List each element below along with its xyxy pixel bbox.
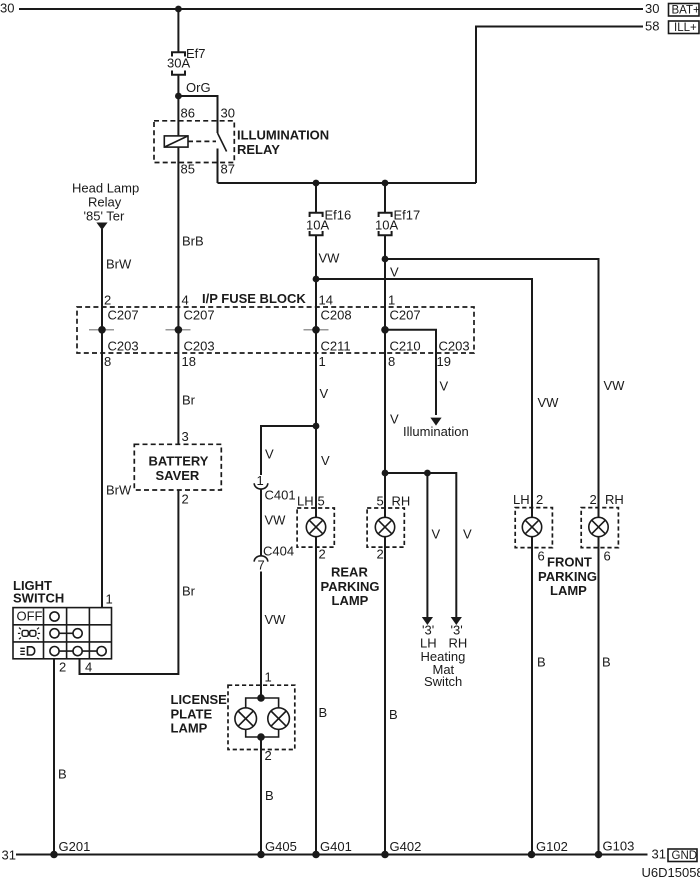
connector C207 wire1 (108, 308, 139, 323)
svg-text:V: V (321, 453, 330, 468)
pin 18 label below block wire2 (182, 354, 196, 369)
label LH RH heating (420, 636, 467, 651)
svg-text:FRONT: FRONT (547, 555, 592, 570)
svg-text:V: V (390, 412, 399, 427)
wire heating mat branch (385, 473, 456, 618)
svg-text:Illumination: Illumination (403, 424, 469, 439)
pin 19 label below block wire5 (437, 354, 451, 369)
connector C207 wire2 (184, 308, 215, 323)
svg-text:Head Lamp: Head Lamp (72, 181, 139, 196)
svg-text:C208: C208 (321, 308, 352, 323)
wire C401 to C404 (260, 489, 262, 556)
label Br light switch wire (182, 584, 196, 599)
svg-text:1: 1 (265, 670, 272, 685)
label B front LH ground (537, 655, 546, 670)
label Ef7 (186, 46, 206, 61)
wire battery saver to light switch pin 4 (80, 490, 179, 674)
pin 1 label below block wire3 (319, 354, 326, 369)
label '3' LH (422, 623, 434, 638)
wire to fuse Ef16 (315, 183, 317, 213)
svg-text:REAR: REAR (331, 565, 368, 580)
wire light switch pin 2 to ground (53, 659, 55, 855)
wire Ef16 to fuse block pin 14 (315, 235, 317, 855)
svg-text:4: 4 (85, 660, 92, 675)
svg-text:2: 2 (104, 293, 111, 308)
label Illumination (403, 424, 469, 439)
front parking lamp LH pin 2 labels (513, 492, 543, 507)
svg-text:V: V (440, 379, 449, 394)
front parking lamp LH bulb (522, 517, 541, 536)
label VW license lower (265, 612, 287, 627)
battery saver dashed box (134, 444, 221, 490)
svg-text:LH: LH (513, 492, 530, 507)
label B license ground wire (265, 788, 274, 803)
label Head Lamp Relay 85 Ter (72, 181, 139, 224)
svg-text:10A: 10A (306, 218, 329, 233)
svg-text:5: 5 (318, 494, 325, 509)
svg-text:B: B (319, 705, 328, 720)
svg-text:B: B (265, 788, 274, 803)
svg-text:4: 4 (182, 293, 189, 308)
connector C210 wire4 (390, 339, 421, 354)
junction 87 bus / Ef17 (382, 180, 389, 187)
rear parking lamp LH dashed box (297, 508, 334, 547)
label REAR PARKING LAMP (321, 565, 380, 609)
illumination relay dashed box (154, 121, 234, 163)
svg-text:LH: LH (297, 494, 314, 509)
svg-text:6: 6 (604, 549, 611, 564)
front parking lamp LH dashed box (515, 508, 552, 548)
wire relay pin 85 down (177, 147, 179, 444)
svg-text:8: 8 (388, 354, 395, 369)
label FRONT PARKING LAMP (538, 555, 597, 599)
junction license branch (313, 423, 320, 430)
svg-text:C207: C207 (108, 308, 139, 323)
label BATTERY SAVER (149, 454, 209, 483)
light switch pin 2 label (59, 660, 66, 675)
label VW license upper (265, 513, 287, 528)
svg-text:2: 2 (182, 492, 189, 507)
svg-text:G401: G401 (320, 839, 352, 854)
svg-text:LICENSE: LICENSE (171, 692, 228, 707)
label ILLUMINATION RELAY (237, 128, 329, 157)
svg-text:C203: C203 (439, 339, 470, 354)
rear parking lamp RH dashed box (367, 508, 404, 547)
relay coil (164, 136, 188, 147)
svg-text:30A: 30A (167, 56, 190, 71)
fuse Ef7 (172, 52, 185, 74)
svg-text:ILLUMINATION: ILLUMINATION (237, 128, 329, 143)
label V heating LH (432, 527, 441, 542)
svg-text:OFF: OFF (17, 609, 43, 624)
pin 8 label below block wire4 (388, 354, 395, 369)
label B switch ground wire (58, 767, 67, 782)
ground bus 31 (16, 854, 648, 856)
label V heating RH (463, 527, 472, 542)
svg-text:RH: RH (392, 494, 411, 509)
svg-text:2: 2 (590, 492, 597, 507)
light switch pin 4 label (85, 660, 92, 675)
terminal ILL+ (669, 21, 700, 34)
connector C208 wire3 (321, 308, 352, 323)
rear parking lamp LH pin 5 labels (297, 494, 325, 509)
svg-text:G103: G103 (603, 839, 635, 854)
label LIGHT SWITCH (13, 578, 64, 606)
label 10A Ef17 (375, 218, 398, 233)
svg-text:V: V (390, 265, 399, 280)
svg-text:G405: G405 (265, 839, 297, 854)
label '3' RH (451, 623, 463, 638)
label 30A (167, 56, 190, 71)
front parking lamp RH pin 2 labels (590, 492, 624, 507)
connector C401 (254, 483, 295, 502)
svg-text:PARKING: PARKING (321, 579, 380, 594)
svg-text:GND: GND (672, 850, 698, 862)
junction Ef17 wire front RH branch (382, 256, 389, 263)
svg-text:I/P FUSE BLOCK: I/P FUSE BLOCK (202, 291, 306, 306)
label VW Ef16 wire (319, 251, 341, 266)
label Ef16 (325, 208, 352, 223)
svg-text:VW: VW (265, 612, 287, 627)
svg-text:BrW: BrW (106, 483, 132, 498)
svg-text:6: 6 (538, 549, 545, 564)
wire branch to front parking RH (385, 259, 599, 855)
node OrG junction (175, 93, 182, 100)
wire 58 from ILL+ (476, 27, 643, 184)
svg-text:1: 1 (106, 592, 113, 607)
svg-text:86: 86 (181, 106, 195, 121)
fuse Ef16 (310, 213, 323, 235)
license lamp internal wiring bottom (246, 729, 279, 737)
pin 87 label (221, 162, 235, 177)
light switch table grid (13, 608, 112, 659)
label BrW lower (106, 483, 132, 498)
svg-text:85: 85 (181, 162, 195, 177)
junction wire4 inside block (381, 326, 389, 334)
svg-text:V: V (432, 527, 441, 542)
license lamp pin 2 label (265, 748, 272, 763)
label VW front LH (538, 395, 560, 410)
license plate lamp dashed box (228, 685, 295, 749)
junction heating mat LH (424, 470, 431, 477)
switch contact row1 col2 (50, 612, 59, 621)
svg-text:8: 8 (104, 354, 111, 369)
license lamp top junction (257, 694, 265, 702)
wire branch C203 19 illumination (385, 330, 436, 415)
label OrG (186, 80, 211, 95)
svg-text:Switch: Switch (424, 674, 462, 689)
rear parking lamp RH pin 2 label (377, 547, 384, 562)
svg-text:VW: VW (604, 378, 626, 393)
node 58 label (645, 19, 659, 34)
label LICENSE PLATE LAMP (171, 692, 228, 736)
label V rear LH wire upper (320, 386, 329, 401)
rear parking lamp RH pin 5 labels (377, 494, 411, 509)
svg-text:V: V (463, 527, 472, 542)
svg-text:G201: G201 (59, 839, 91, 854)
bus bar wire2 (166, 326, 191, 334)
bus bar wire3 (304, 326, 329, 334)
junction VW wire front LH branch (313, 276, 320, 283)
headlamp icon row3 (20, 647, 34, 655)
front parking lamp LH pin 6 label (538, 549, 545, 564)
svg-text:3: 3 (182, 429, 189, 444)
svg-text:1: 1 (319, 354, 326, 369)
relay coil to contact dashed link (188, 140, 216, 142)
junction heating mat branch (382, 470, 389, 477)
svg-text:BrW: BrW (106, 257, 132, 272)
wire C404 to license plate lamp (260, 572, 262, 699)
label B front RH ground (602, 655, 611, 670)
svg-text:C203: C203 (108, 339, 139, 354)
node 30 label right (645, 1, 659, 16)
node 31 label right (652, 847, 666, 862)
light switch pin 1 label (106, 592, 113, 607)
svg-text:PLATE: PLATE (171, 706, 213, 721)
label BrW upper (106, 257, 132, 272)
license lamp pin 1 label (265, 670, 272, 685)
arrowhead heating LH (422, 617, 433, 625)
license bulb left (235, 708, 257, 730)
wire branch to license plate circuit (261, 426, 316, 475)
svg-text:C210: C210 (390, 339, 421, 354)
pin 14 label above block wire3 (319, 293, 333, 308)
license bulb right (268, 708, 290, 730)
svg-text:VW: VW (538, 395, 560, 410)
label V illumination wire (440, 379, 449, 394)
wire heating mat LH arrow (426, 473, 428, 618)
connector C203 wire2 (184, 339, 215, 354)
pin 4 label above block wire2 (182, 293, 189, 308)
arrowhead heating RH (451, 617, 462, 625)
label Ef17 (394, 208, 421, 223)
relay switch blade (218, 121, 227, 152)
arrow from head lamp relay (96, 223, 107, 231)
license lamp bottom junction (257, 733, 265, 741)
label V rear LH wire lower (321, 453, 330, 468)
bus bar wire1 (89, 326, 114, 334)
svg-text:30: 30 (645, 1, 659, 16)
label 10A Ef16 (306, 218, 329, 233)
pin 3 label battery saver (182, 429, 189, 444)
ground G103 (595, 839, 635, 859)
connector C401 pin 1 label (257, 473, 264, 488)
svg-text:BAT+: BAT+ (672, 5, 700, 17)
svg-text:Br: Br (182, 393, 196, 408)
pin 86 label (181, 106, 195, 121)
svg-text:V: V (265, 447, 274, 462)
rear parking lamp RH bulb (375, 517, 394, 536)
wire relay 87 output bus (218, 182, 477, 184)
node 31 label left (2, 848, 16, 863)
ground G401 (312, 839, 352, 858)
label V license wire (265, 447, 274, 462)
ground G102 (528, 839, 568, 858)
I/P fuse block dashed box (77, 307, 474, 353)
svg-text:V: V (320, 386, 329, 401)
svg-text:C404: C404 (263, 544, 294, 559)
label I/P FUSE BLOCK (202, 291, 306, 306)
arrowhead illumination (430, 418, 441, 426)
pin 8 label below block wire1 (104, 354, 111, 369)
wire branch to front parking LH (316, 279, 532, 855)
svg-text:31: 31 (2, 848, 16, 863)
wire BrW from head lamp relay to light switch (101, 229, 103, 608)
svg-text:B: B (58, 767, 67, 782)
label VW front RH (604, 378, 626, 393)
svg-text:BrB: BrB (182, 234, 204, 249)
svg-text:2: 2 (265, 748, 272, 763)
svg-text:B: B (602, 655, 611, 670)
svg-text:LAMP: LAMP (332, 593, 369, 608)
wire to fuse Ef17 (384, 183, 386, 213)
wire 30 supply bus (19, 8, 643, 10)
node 30 label left (0, 1, 14, 16)
svg-text:RH: RH (605, 492, 624, 507)
ground G405 (257, 839, 297, 858)
svg-text:2: 2 (536, 492, 543, 507)
junction on 30 bus (175, 6, 182, 13)
svg-text:BATTERY: BATTERY (149, 454, 209, 469)
svg-text:RELAY: RELAY (237, 142, 280, 157)
svg-text:C207: C207 (390, 308, 421, 323)
label B rear RH ground (389, 707, 398, 722)
svg-text:31: 31 (652, 847, 666, 862)
parking lamp icon row2 (18, 628, 40, 640)
svg-text:2: 2 (377, 547, 384, 562)
rear parking lamp LH pin 2 label (319, 547, 326, 562)
connector C207 wire4 (390, 308, 421, 323)
svg-text:14: 14 (319, 293, 333, 308)
svg-text:C207: C207 (184, 308, 215, 323)
switch contacts row3 (50, 647, 106, 656)
svg-text:Br: Br (182, 584, 196, 599)
svg-text:U6D15058: U6D15058 (642, 865, 700, 880)
svg-text:30: 30 (221, 106, 235, 121)
svg-text:C211: C211 (321, 339, 351, 354)
svg-text:C203: C203 (184, 339, 215, 354)
svg-text:30: 30 (0, 1, 14, 16)
ground G402 (381, 839, 421, 858)
svg-text:B: B (389, 707, 398, 722)
svg-text:ILL+: ILL+ (674, 22, 697, 34)
rear parking lamp LH bulb (306, 517, 325, 536)
svg-text:1: 1 (388, 293, 395, 308)
svg-text:B: B (537, 655, 546, 670)
svg-text:LAMP: LAMP (550, 583, 587, 598)
svg-text:87: 87 (221, 162, 235, 177)
svg-text:VW: VW (319, 251, 341, 266)
connector C203 wire5 (439, 339, 470, 354)
svg-text:5: 5 (377, 494, 384, 509)
wire fuse Ef7 to OrG node (177, 75, 179, 97)
relay pin 87 contact (217, 149, 219, 184)
svg-text:1: 1 (257, 473, 264, 488)
label U6D15058 (642, 865, 700, 880)
svg-text:18: 18 (182, 354, 196, 369)
svg-text:C401: C401 (265, 488, 296, 503)
svg-text:LAMP: LAMP (171, 721, 208, 736)
label Br wire2 below block (182, 393, 196, 408)
wire from 30 bus to fuse Ef7 (177, 9, 179, 52)
terminal BAT+ (669, 4, 700, 17)
pin 2 label battery saver (182, 492, 189, 507)
svg-text:19: 19 (437, 354, 451, 369)
svg-text:2: 2 (59, 660, 66, 675)
pin 30 label (221, 106, 235, 121)
connector C404 (254, 544, 294, 562)
svg-text:7: 7 (258, 558, 265, 573)
svg-text:OrG: OrG (186, 80, 211, 95)
label BrB (182, 234, 204, 249)
connector C203 wire1 (108, 339, 139, 354)
switch contacts row2 (50, 629, 82, 638)
pin 2 label above block wire1 (104, 293, 111, 308)
connector C404 pin 7 label (258, 558, 265, 573)
connector C211 wire3 (321, 339, 351, 354)
label V Ef17 wire (390, 265, 399, 280)
svg-text:10A: 10A (375, 218, 398, 233)
svg-text:Relay: Relay (88, 195, 122, 210)
wire OrG node to relay pin 86 (coil) (177, 96, 179, 137)
pin 85 label (181, 162, 195, 177)
wire OrG node to relay pin 30 (178, 96, 217, 121)
svg-text:G402: G402 (390, 839, 422, 854)
terminal GND (668, 849, 697, 862)
junction 87 bus / Ef16 (313, 180, 320, 187)
label V rear RH wire (390, 412, 399, 427)
wire Ef17 to fuse block pin 1 (384, 235, 386, 855)
label Heating Mat Switch (421, 649, 466, 689)
ground G201 (50, 839, 90, 858)
svg-text:G102: G102 (536, 839, 568, 854)
svg-text:VW: VW (265, 513, 287, 528)
pin 1 label above block wire4 (388, 293, 395, 308)
label OFF (17, 609, 43, 624)
svg-text:2: 2 (319, 547, 326, 562)
svg-text:58: 58 (645, 19, 659, 34)
front parking lamp RH bulb (589, 517, 608, 536)
front parking lamp RH dashed box (581, 508, 618, 548)
svg-text:'85' Ter: '85' Ter (84, 209, 126, 224)
svg-text:SAVER: SAVER (156, 468, 200, 483)
svg-text:PARKING: PARKING (538, 569, 597, 584)
wire license lamp to ground (260, 737, 262, 855)
label B rear LH ground (319, 705, 328, 720)
license lamp internal wiring top (246, 698, 279, 708)
fuse Ef17 (379, 213, 392, 235)
svg-text:SWITCH: SWITCH (13, 591, 64, 606)
front parking lamp RH pin 6 label (604, 549, 611, 564)
